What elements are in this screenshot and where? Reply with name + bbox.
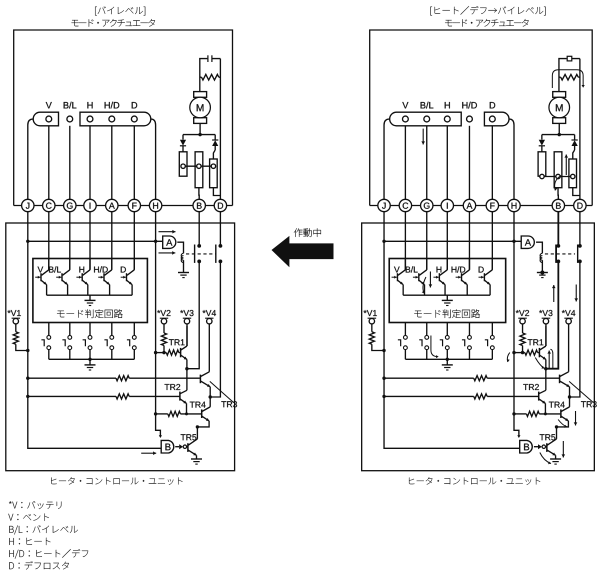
wire pad H (R) [446, 126, 448, 200]
legend line 5 [9, 550, 13, 557]
label TR1 (R) [528, 339, 533, 345]
wire bridge left (R) [545, 369, 547, 391]
mode contact H/D (R) [468, 336, 472, 340]
diode D1 (L) [182, 135, 184, 140]
flow loop right of TR1 (R) [548, 351, 550, 370]
wire C line (R) [404, 212, 406, 270]
junction H-TR1 (L) [154, 351, 157, 354]
terminal H (R) [508, 199, 520, 211]
signal arrow below A (L) [159, 252, 176, 254]
capacitor C1 (L) [207, 55, 209, 62]
motor M1 caps (L) [194, 92, 207, 98]
header right line1 [430, 7, 432, 16]
terminal J (R) [378, 199, 390, 211]
wire *V3 line (L) [186, 324, 188, 346]
transistor TR2 (L) [179, 392, 181, 401]
battery terminal *V2 (R) [516, 310, 519, 313]
mode transistor label H (L) [79, 267, 84, 273]
wire J line (R) [384, 212, 519, 449]
battery terminal *V4 (R) [562, 310, 565, 313]
junction J-TR3 (R) [382, 377, 385, 380]
wire mode out D (R) [491, 323, 493, 336]
wire G line (R) [426, 212, 428, 270]
wire B line lower (R) [546, 261, 559, 368]
slider wiper contacts (L) [181, 164, 185, 168]
wire contact D down (R) [491, 350, 493, 360]
mode contact B/L (L) [68, 336, 72, 340]
wire D line lower (R) [570, 261, 580, 397]
ground mode box (L) [89, 295, 91, 300]
mode transistor H (L) [89, 259, 91, 270]
mode transistor D (R) [491, 259, 493, 270]
wire D line upper (R) [579, 212, 581, 246]
junction motor out (L) [198, 133, 201, 136]
mode transistor label D (R) [479, 267, 484, 273]
wire R6 to TR2 (R) [487, 395, 538, 397]
flow arrow right of TR5 down (R) [562, 441, 564, 458]
connector pad V (L) [46, 116, 52, 122]
battery terminal *V3 (R) [539, 310, 542, 313]
label TR3 (L) [221, 401, 226, 407]
wire J line (L) [28, 212, 161, 449]
connector pad V (R) [402, 116, 408, 122]
wire J to TR3 base (L) [28, 377, 116, 379]
resistor R2 (R) [371, 324, 373, 332]
wire diode bus (L) [183, 134, 215, 136]
resistor R7 (R) [526, 411, 539, 416]
transistor TR1 (R) [538, 348, 540, 357]
terminal F (L) [128, 199, 140, 211]
connector pad D (L) [131, 116, 137, 122]
junction motor out (R) [558, 133, 561, 136]
wire bridge left (L) [186, 369, 188, 391]
terminal D (L) [214, 199, 226, 211]
motor M1 (R) [549, 97, 570, 118]
connector shell V-BL-H (R) [390, 112, 462, 126]
heater control unit box (L) [6, 223, 235, 471]
transistor TR5 (L) [187, 443, 189, 452]
label TR4 (R) [549, 402, 554, 408]
mode contact B/L (R) [425, 336, 429, 340]
wire I line (L) [89, 212, 91, 270]
relay driver A (L) [163, 236, 176, 248]
wire H to TR1 (R) [514, 352, 525, 354]
capacitor C1 (R) [567, 56, 572, 61]
leader TR3 (R) [569, 381, 593, 402]
junction contact bus (R) [446, 358, 449, 361]
mode transistor label H (R) [437, 267, 442, 273]
legend line 2 [8, 514, 13, 521]
wire A line (L) [111, 212, 113, 270]
junction H-TR4 (R) [512, 412, 515, 415]
wire motor loop (L) [200, 59, 221, 92]
relay coil A (R) [540, 253, 542, 262]
junction H-A (L) [154, 240, 157, 243]
connector pad B/L (L) [67, 116, 73, 122]
junction TR4-TR5 (L) [196, 425, 199, 428]
transistor TR4 (R) [560, 409, 562, 418]
resistor R6 (R) [474, 394, 487, 399]
mode decision box (R) [389, 259, 505, 323]
slider S3 (L) [210, 159, 218, 188]
actuator bottom bus (L) [14, 205, 233, 207]
slider wiper bus (R) [542, 176, 573, 178]
mode contact D (R) [490, 336, 494, 340]
mode contact H (R) [445, 336, 449, 340]
leader TR3 (L) [210, 381, 234, 402]
label TR4 (L) [190, 402, 195, 408]
flow arrow mode B/L (R) [429, 272, 431, 288]
diode D2 (L) [214, 135, 216, 140]
wire F line (L) [133, 212, 135, 270]
junction H-TR4 (L) [154, 412, 157, 415]
wire connector to H (L) [151, 119, 156, 199]
wire motor loop right (R) [579, 59, 581, 200]
mode transistor V (R) [404, 259, 406, 270]
header right line2 [445, 20, 452, 26]
connector label B/L (R) [421, 102, 426, 108]
wire mode out H (L) [89, 323, 91, 336]
wire contact B/L down (R) [426, 350, 428, 360]
wire R5 to TR3 (R) [487, 377, 559, 379]
slider S1 (R) [538, 152, 546, 176]
ground contact bus (L) [89, 359, 91, 364]
heater control unit box (R) [362, 223, 595, 471]
junction *V2 (L) [162, 351, 165, 354]
contact common bus (R) [405, 358, 492, 360]
wire I line (R) [446, 212, 448, 270]
terminal G (L) [64, 199, 76, 211]
wire bridge right (L) [209, 397, 211, 407]
wire J to TR2 base (L) [28, 395, 116, 397]
flow arrow contact B/L (R) [431, 336, 437, 357]
mode transistor H/D (L) [111, 259, 113, 270]
flow arrow slider up (R) [565, 155, 567, 176]
junction bridge D (L) [209, 395, 212, 398]
driver B output triangle and bubble (R) [538, 444, 542, 449]
wire B line upper (R) [557, 212, 559, 246]
mode transistor label V (L) [38, 267, 44, 273]
connector pad B/L (R) [424, 116, 430, 122]
wire D line lower (L) [210, 261, 220, 397]
wire diode bus (R) [542, 134, 575, 136]
label TR5 (R) [540, 434, 545, 440]
arrowhead H line (L) [159, 435, 162, 438]
junction *V1-J (L) [26, 349, 29, 352]
motor M1 caps (R) [553, 92, 566, 98]
mode transistor label H/D (L) [94, 267, 99, 273]
connector label H (R) [445, 102, 450, 108]
resistor R5 (R) [474, 376, 487, 381]
wire H line (R) [514, 212, 519, 437]
signal arrow above A (L) [159, 231, 176, 233]
terminal G (R) [421, 199, 433, 211]
junction bridge D (R) [568, 395, 571, 398]
junction TR2-TR4 (L) [185, 412, 188, 415]
flow annotation around loop (R) [552, 70, 583, 88]
connector label D (L) [132, 102, 137, 108]
wire R7 to TR4 (L) [180, 413, 201, 415]
connector label H/D (R) [462, 102, 467, 108]
wire D line upper (L) [219, 212, 221, 246]
wire B line upper (L) [198, 212, 200, 246]
wire pad D (L) [133, 126, 135, 200]
wire A out (R) [536, 242, 542, 253]
wire bridge right (R) [569, 397, 571, 407]
wire J to TR2 base (R) [384, 395, 474, 397]
caption heater control unit (L) [51, 478, 56, 485]
legend line 3 [9, 526, 13, 533]
wire J to TR3 base (R) [384, 377, 474, 379]
arrowhead H line (R) [517, 435, 520, 438]
connector pad H (R) [444, 116, 450, 122]
wire coil to ground (L) [183, 260, 185, 272]
wire H to TR1 (L) [156, 352, 167, 354]
ground contact bus (R) [446, 359, 448, 364]
flow curve TR5 (R) [540, 453, 551, 464]
wire C line (L) [48, 212, 50, 270]
relay driver B (R) [520, 440, 533, 453]
terminal A (R) [463, 199, 475, 211]
terminal D (R) [574, 199, 586, 211]
header left line2 [72, 20, 79, 26]
legend line 6 [9, 562, 14, 569]
mode box label (R) [414, 311, 421, 318]
wire coil to ground (R) [541, 260, 543, 272]
flow curve mode B/L (R) [423, 277, 426, 294]
slider S3 (R) [569, 159, 577, 188]
transistor TR5 (R) [546, 443, 548, 452]
battery terminal *V1 (L) [8, 310, 11, 313]
actuator enclosure (R) [370, 30, 592, 206]
relay contact D (L) [219, 244, 223, 248]
mode transistor label V (R) [394, 267, 400, 273]
wire B line lower (L) [187, 261, 199, 368]
resistor R4 (R) [525, 350, 538, 355]
wire mode out V (R) [404, 323, 406, 336]
terminal I (L) [84, 199, 96, 211]
junction J-A (L) [26, 240, 29, 243]
flow arrow D path down (R) [575, 285, 577, 302]
wire contact B/L down (L) [69, 350, 71, 360]
wire J to A driver (R) [384, 240, 521, 242]
relay contact D (R) [578, 244, 582, 248]
wire contact H down (L) [89, 350, 91, 360]
wire *V4 line (L) [208, 324, 210, 372]
wire mode out D (L) [133, 323, 135, 336]
connector pad H (L) [87, 116, 93, 122]
relay linkage dashed (L) [186, 253, 216, 255]
wire R5 to TR3 (L) [129, 377, 200, 379]
junction J-TR3 (L) [26, 377, 29, 380]
wire pad B/L (L) [69, 126, 71, 200]
wire pad D (R) [491, 126, 493, 200]
flow hook left of TR1 (R) [507, 353, 509, 363]
mode transistor H (R) [446, 259, 448, 270]
terminal C (L) [43, 199, 55, 211]
resistor R3 (R) [522, 324, 524, 333]
connector label V (R) [402, 102, 408, 108]
ground TR5 (R) [550, 458, 561, 460]
wire pad V (R) [404, 126, 406, 200]
wire pad H/D (R) [468, 126, 470, 200]
relay linkage dashed (R) [545, 253, 575, 255]
junction J-TR2 (R) [382, 395, 385, 398]
mode transistor H/D (R) [468, 259, 470, 270]
junction bridge B (L) [185, 367, 188, 370]
label TR1 (L) [169, 339, 174, 345]
resistor R6 (L) [116, 394, 129, 399]
label TR3 (R) [581, 401, 586, 407]
resistor R3 (L) [163, 324, 165, 333]
junction TR4-TR5 (R) [555, 425, 558, 428]
battery terminal *V2 (L) [157, 310, 160, 313]
driver B output triangle and bubble (L) [179, 444, 183, 449]
junction J-A (R) [382, 240, 385, 243]
wire mode out B/L (L) [69, 323, 71, 336]
mode transistor B/L (L) [69, 259, 71, 270]
wire mode out H (R) [446, 323, 448, 336]
connector shell V (L) [33, 112, 58, 126]
transistor TR3 (R) [559, 375, 561, 384]
flow curve TR4 emitter (R) [558, 420, 567, 428]
connector label D (R) [490, 102, 495, 108]
connector label H (L) [87, 102, 92, 108]
resistor R1 (R) [561, 74, 579, 80]
diode D2 (R) [574, 135, 576, 140]
wire motor loop (R) [559, 59, 580, 92]
transistor TR2 (R) [538, 392, 540, 401]
wire H to TR4 base (R) [514, 413, 526, 415]
mode transistor label H/D (R) [452, 267, 457, 273]
wire contact H/D down (R) [468, 350, 470, 360]
mode contact H/D (L) [110, 336, 114, 340]
mode emitter bus (R) [403, 294, 490, 296]
slider wiper contacts (R) [540, 174, 544, 178]
relay driver B (L) [161, 440, 174, 453]
mode transistor D (L) [133, 259, 135, 270]
resistor R2 (L) [15, 324, 17, 332]
mode box label (L) [57, 311, 64, 318]
legend line 4 [9, 538, 13, 545]
connector label B/L (L) [64, 102, 69, 108]
resistor R7 (L) [168, 411, 181, 416]
terminal F (R) [486, 199, 498, 211]
slider S2 (L) [195, 152, 203, 188]
connector pad H/D (R) [467, 116, 473, 122]
wire motor out (L) [199, 123, 201, 134]
wire pad H/D (L) [111, 126, 113, 200]
wire A out (L) [177, 242, 183, 253]
ground coil A (R) [540, 271, 544, 275]
ground TR5 (L) [191, 458, 202, 460]
flow curve TR1 emitter (R) [535, 358, 544, 369]
connector shell D (R) [484, 112, 509, 126]
wire H line (L) [156, 212, 161, 437]
terminal J (L) [22, 199, 34, 211]
wire pad H (L) [89, 126, 91, 200]
relay coil A (L) [181, 253, 183, 262]
relay driver A (R) [521, 236, 534, 248]
transistor TR3 (L) [199, 375, 201, 384]
wire contact V down (L) [48, 350, 50, 360]
wire mode out H/D (L) [111, 323, 113, 336]
transistor TR1 (L) [180, 348, 182, 357]
connector shell H-HD-D (L) [80, 112, 151, 126]
slider S1 (L) [179, 152, 187, 176]
resistor R5 (L) [116, 376, 129, 381]
junction H-A (R) [512, 240, 515, 243]
junction *V1-J (R) [382, 349, 385, 352]
junction TR2-TR4 (R) [544, 412, 547, 415]
junction J-TR2 (L) [26, 395, 29, 398]
resistor R1 (L) [202, 74, 219, 80]
slider wiper bus (L) [183, 165, 213, 167]
wire J to A driver (L) [28, 240, 163, 242]
wire S3 to D (L) [213, 188, 220, 196]
wire F line (R) [491, 212, 493, 270]
slider S2 (R) [554, 152, 562, 188]
label TR2 (L) [165, 384, 170, 390]
motor M1 (L) [190, 97, 211, 118]
wire motor loop right (L) [219, 59, 221, 200]
wire connector to J (R) [384, 119, 389, 199]
relay contact B (L) [197, 244, 201, 248]
battery terminal *V4 (L) [203, 310, 206, 313]
header left line1 [95, 7, 97, 16]
terminal B (R) [552, 199, 564, 211]
mode emitter bus (L) [47, 294, 133, 296]
connector label H/D (L) [105, 102, 110, 108]
flow curve slider (R) [555, 176, 562, 191]
junction bridge B (R) [544, 367, 547, 370]
wire A line (R) [468, 212, 470, 270]
resistor R4 (L) [166, 350, 179, 355]
transistor TR4 (L) [201, 409, 203, 418]
terminal B (L) [193, 199, 205, 211]
wire motor out (R) [558, 123, 560, 134]
connector label V (L) [46, 102, 52, 108]
wire pad B/L (R) [426, 126, 428, 200]
mode transistor label B/L (L) [49, 267, 54, 273]
wire R7 to TR4 (R) [539, 413, 560, 415]
wire mode out V (L) [48, 323, 50, 336]
wire mode out H/D (R) [468, 323, 470, 336]
relay contact B (R) [556, 244, 560, 248]
actuator bottom bus (R) [370, 205, 593, 207]
wire *V4 line (R) [568, 324, 570, 372]
wire contact H down (R) [446, 350, 448, 360]
terminal A (L) [106, 199, 118, 211]
mode transistor B/L (R) [426, 259, 428, 270]
wire G line (L) [69, 212, 71, 270]
flow arrow B path up (R) [553, 285, 555, 302]
big arrow operating [272, 236, 334, 267]
junction H-TR1 (R) [512, 351, 515, 354]
mode contact H (L) [88, 336, 92, 340]
label TR2 (R) [523, 384, 528, 390]
mode decision box (L) [33, 259, 147, 323]
wire H to TR4 base (L) [156, 413, 168, 415]
actuator enclosure (L) [14, 30, 233, 206]
connector pad H/D (L) [109, 116, 115, 122]
ground coil A (L) [178, 272, 189, 274]
wire *V3 line (R) [545, 324, 547, 346]
wire mode out B/L (R) [426, 323, 428, 336]
wire connector to H (R) [509, 119, 514, 199]
mode contact D (L) [132, 336, 136, 340]
terminal H (L) [149, 199, 161, 211]
